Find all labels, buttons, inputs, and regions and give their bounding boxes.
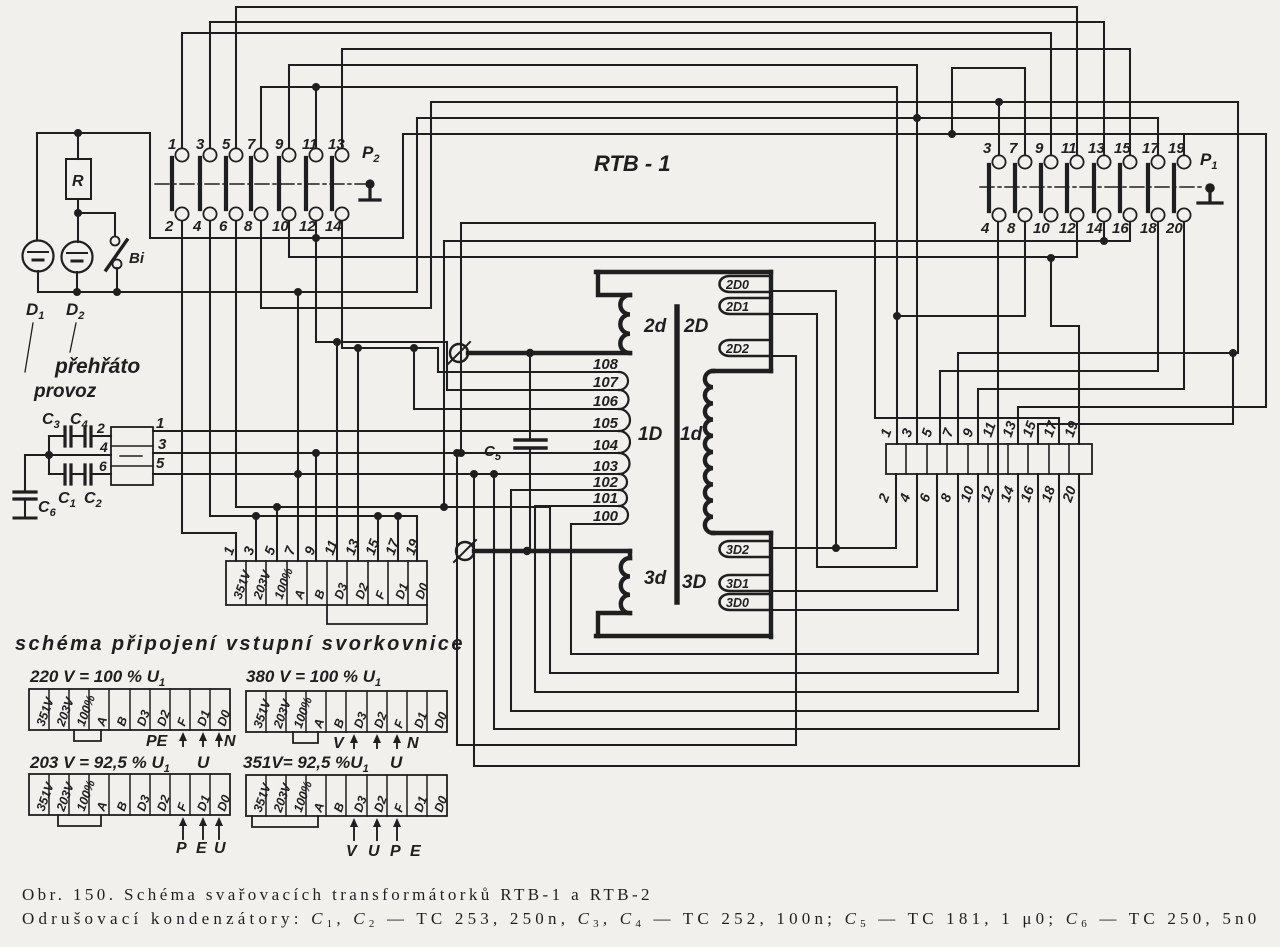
node pin12 crossing box wire: [312, 234, 320, 242]
wire P2 pin10 line y257 to P1 pin12: [289, 221, 1077, 257]
winding 1d coil: [705, 371, 713, 533]
P2 pole contact bar 9-10: [277, 158, 281, 209]
variant block 380V divider 6: [366, 691, 368, 732]
P2 pin 4 bottom circle: [203, 207, 216, 220]
wire line y223 staircase to strip cell9: [461, 223, 1059, 444]
svg-text:E: E: [196, 840, 208, 857]
P2 pin 13 top circle: [335, 148, 348, 161]
node C5 bottom junction: [523, 547, 531, 555]
wire branch block A: [297, 474, 299, 561]
svg-text:11: 11: [1061, 140, 1077, 157]
transformer right edge upper: [769, 272, 773, 371]
svg-text:4: 4: [980, 220, 990, 237]
P2 pin 11 top circle: [309, 148, 322, 161]
wire line y241 to P1 pin16: [444, 222, 1130, 241]
svg-text:U: U: [368, 843, 380, 860]
variant block 203V arrowhead at 203: [199, 817, 207, 826]
wire branch to block D3: [336, 342, 338, 561]
wire C5 bottom lead: [529, 448, 531, 551]
variant block 380V divider 8: [406, 691, 408, 732]
input terminal block body: [226, 561, 427, 605]
transformer right edge lower: [769, 533, 773, 637]
svg-text:12: 12: [1059, 220, 1076, 237]
svg-text:7: 7: [1009, 140, 1018, 157]
wire tap106 line: [414, 408, 619, 410]
wire branch strip cell1 to P1 pin8: [897, 222, 1025, 316]
capacitor C3 plates: [65, 427, 71, 446]
variant block 220V arrow at 183: [182, 736, 184, 746]
wire P2 pin3 to P1 top bundle line y22: [210, 22, 1104, 155]
capacitor C4 plates: [85, 427, 91, 446]
node tap104 to B junction: [312, 449, 320, 457]
variant block 220V arrowhead at 219: [215, 732, 223, 741]
node line y118 crossing cell2 wire: [913, 114, 921, 122]
svg-text:106: 106: [593, 393, 619, 410]
svg-text:Obr. 150. Schéma svařovacích t: Obr. 150. Schéma svařovacích transformát…: [22, 885, 653, 904]
Bi switch bottom contact: [113, 260, 122, 269]
wire C5 top lead: [529, 353, 531, 440]
svg-text:16: 16: [1112, 220, 1129, 237]
svg-text:přehřáto: přehřáto: [54, 355, 140, 378]
svg-text:2: 2: [96, 420, 105, 436]
input block divider 3: [286, 561, 288, 605]
wire C1-C2 link: [71, 473, 84, 475]
svg-text:203 V = 92,5 % U1: 203 V = 92,5 % U1: [29, 753, 170, 775]
wire P2 pin13 to P1 top bundle line y49: [342, 49, 1130, 155]
terminal strip divider 7: [1027, 444, 1029, 474]
wire left box top: [37, 133, 403, 238]
wire strip cell3 to P1 pin18: [940, 222, 1158, 444]
wire nest to cell10: [474, 474, 1079, 766]
svg-text:5: 5: [222, 136, 231, 153]
thick feed line lower screw to 3d: [474, 549, 630, 553]
transformer top-left hook: [598, 272, 630, 295]
svg-text:3D0: 3D0: [726, 596, 749, 610]
node tap103 bus junction: [294, 470, 302, 478]
variant block 203V divider 2: [68, 774, 70, 815]
svg-text:U: U: [197, 753, 210, 772]
wire nest to cell9: [494, 474, 1059, 729]
node cell1 branch junction: [893, 312, 901, 320]
svg-text:2: 2: [164, 218, 174, 235]
variant block 203V divider 9: [209, 774, 211, 815]
svg-text:18: 18: [1140, 220, 1157, 237]
variant block 351V arrowhead at 377: [373, 818, 381, 827]
node cap bus junction: [45, 451, 53, 459]
svg-text:3: 3: [158, 436, 167, 453]
svg-text:3D: 3D: [682, 572, 707, 593]
variant block 380V divider 5: [345, 691, 347, 732]
wire P2 pin5 to P1 top bundle line y7: [236, 7, 1077, 155]
variant block 220V arrow at 219: [218, 736, 220, 746]
lamp D2 inner long electrode: [67, 252, 87, 254]
wire lamp D2 bottom lead: [76, 272, 78, 292]
winding 1D turn arc 105-104: [619, 431, 630, 453]
variant block 380V bottom strap: [293, 732, 318, 743]
P1 pin 12 bottom circle: [1070, 208, 1083, 221]
variant block 351V divider 8: [406, 775, 408, 816]
variant block 351V divider 3: [305, 775, 307, 816]
wire tap108 line: [438, 371, 619, 373]
variant block 380V arrow at 397: [396, 738, 398, 748]
P2 pin 12 bottom circle: [309, 207, 322, 220]
wire P2 pin8 to strip cell4 line y102: [261, 102, 1238, 444]
wire branch line y102 to P1 pin3: [998, 102, 1000, 155]
svg-text:9: 9: [1035, 140, 1044, 157]
P1 pin 8 bottom circle: [1018, 208, 1031, 221]
wire left box left side to lamp D1: [36, 133, 38, 240]
P1 pole contact bar 3-4: [987, 165, 991, 211]
capacitor C5 plates: [515, 440, 546, 448]
wire C2 to box pin6: [91, 473, 111, 475]
signal lamp D2: [62, 242, 93, 273]
svg-text:1: 1: [168, 136, 176, 153]
variant block 203V arrow at 219: [218, 821, 220, 839]
variant block 380V divider 4: [325, 691, 327, 732]
variant block 380V arrowhead at 354: [350, 734, 358, 743]
svg-text:17: 17: [1142, 140, 1159, 157]
Bi switch blade: [106, 240, 127, 270]
winding 3d top lead: [628, 551, 632, 558]
svg-text:7: 7: [247, 136, 256, 153]
P2 ground symbol: [360, 184, 380, 200]
P1 ground symbol: [1198, 188, 1222, 203]
variant block 203V divider 7: [169, 774, 171, 815]
screw terminal lower slash: [454, 540, 476, 562]
svg-text:3d: 3d: [644, 568, 667, 589]
wire R bottom lead: [77, 199, 79, 242]
wire P2 pin12 staircase to tap107: [316, 221, 447, 390]
wire 2D0 to 3D2 line: [771, 291, 836, 548]
secondary tap tab 2D0: [720, 276, 772, 292]
P2 ground node dot: [365, 179, 374, 188]
node line y353 junction: [1229, 349, 1237, 357]
P1 pole contact bar 7-8: [1013, 165, 1017, 211]
variant block 380V divider 2: [285, 691, 287, 732]
svg-text:2D: 2D: [683, 316, 709, 337]
variant block 220V: [29, 689, 230, 730]
wire pin5 to tap103: [153, 473, 621, 475]
node C5 top junction: [526, 349, 534, 357]
variant block 203V divider 4: [108, 774, 110, 815]
input block divider 7: [367, 561, 369, 605]
svg-text:Bi: Bi: [129, 250, 145, 267]
svg-text:8: 8: [1007, 220, 1016, 237]
wire P2 pin7 to strip cell1 line y87: [261, 87, 897, 444]
wire branch to Bi switch: [78, 213, 115, 236]
svg-text:351V= 92,5 %U1: 351V= 92,5 %U1: [243, 753, 369, 775]
node tap103 nest junction: [470, 470, 478, 478]
wire stub P1 pin14 to line y241: [1103, 222, 1105, 241]
svg-text:2D2: 2D2: [725, 342, 749, 356]
node bus vertical branch: [294, 288, 302, 296]
svg-text:8: 8: [244, 218, 253, 235]
winding 1D turn arc 108-107: [619, 372, 628, 390]
variant block 220V divider 4: [108, 689, 110, 730]
variant block 351V divider 7: [386, 775, 388, 816]
svg-text:R: R: [72, 173, 84, 190]
input connector divider 2: [111, 465, 153, 467]
variant block 351V divider 6: [366, 775, 368, 816]
P1 pin 10 bottom circle: [1044, 208, 1057, 221]
wire bus branch down to tap103 line: [297, 292, 299, 474]
P2 pin 7 top circle: [254, 148, 267, 161]
terminal strip body: [886, 444, 1092, 474]
wire C4 to box pin2: [91, 435, 111, 437]
variant block 380V divider 1: [265, 691, 267, 732]
svg-text:3: 3: [196, 136, 205, 153]
wire branch to block D1: [397, 516, 399, 561]
winding 2d coil: [620, 295, 630, 353]
svg-text:1D: 1D: [638, 424, 663, 445]
svg-text:PE: PE: [146, 733, 169, 750]
terminal strip divider 4: [967, 444, 969, 474]
P2 pin 3 top circle: [203, 148, 216, 161]
svg-text:9: 9: [275, 136, 284, 153]
variant block 351V divider 9: [426, 775, 428, 816]
terminal strip divider 8: [1048, 444, 1050, 474]
wire nest to 2D2 drop: [457, 356, 796, 745]
variant block 220V divider 3: [88, 689, 90, 730]
P1 pin 3 top circle: [992, 155, 1005, 168]
wire 3D2 to strip cell1 bottom: [771, 474, 896, 548]
svg-text:2d: 2d: [643, 316, 667, 337]
variant block 380V divider 9: [426, 691, 428, 732]
wire P2 pin1 to P1 top bundle line y33: [182, 33, 1051, 155]
node D2 on bus: [73, 288, 81, 296]
node tap106 junction: [410, 344, 418, 352]
node R bottom junction: [74, 209, 82, 217]
P1 pole contact bar 17-18: [1146, 165, 1150, 211]
wire lamp D1 bottom lead: [37, 271, 39, 292]
svg-text:6: 6: [219, 218, 228, 235]
svg-text:N: N: [407, 735, 419, 752]
variant block 220V arrowhead at 203: [199, 732, 207, 741]
winding 1D turn arc 106-105: [619, 409, 630, 431]
P1 pin 11 top circle: [1070, 155, 1083, 168]
wire C6 to ground: [24, 499, 26, 517]
variant block 220V divider 2: [68, 689, 70, 730]
input connector divider 1: [111, 445, 153, 447]
node 100pct junction: [273, 503, 281, 511]
svg-text:5: 5: [156, 455, 165, 472]
wire C3-C4 link: [71, 435, 84, 437]
transformer top yoke: [596, 270, 771, 274]
secondary tap tab 3D1: [720, 575, 772, 591]
svg-text:12: 12: [299, 218, 316, 235]
variant block 220V divider 5: [129, 689, 131, 730]
P1 pin 16 bottom circle: [1123, 208, 1136, 221]
node Bi on bus: [113, 288, 121, 296]
variant block 203V bottom strap: [58, 815, 101, 826]
wire P2 pin4 to block D0: [210, 221, 417, 561]
secondary tap tab 2D2: [720, 340, 772, 356]
svg-text:3: 3: [983, 140, 992, 157]
variant block 220V bottom strap: [74, 730, 101, 741]
wire branch line y134 to P1 pin19: [1183, 134, 1185, 155]
P1 pin 20 bottom circle: [1177, 208, 1190, 221]
variant block 203V arrow at 203: [202, 821, 204, 839]
input block divider 9: [407, 561, 409, 605]
svg-text:105: 105: [593, 415, 619, 432]
P1 pin 19 top circle: [1177, 155, 1190, 168]
secondary tap tab 2D1: [720, 298, 772, 314]
P2 pole contact bar 11-12: [304, 158, 308, 209]
P1 pin 14 bottom circle: [1097, 208, 1110, 221]
P2 pin 14 bottom circle: [335, 207, 348, 220]
wire P2 pin6 to nest cell6 line y507: [236, 221, 998, 673]
variant block 380V divider 7: [386, 691, 388, 732]
terminal strip divider 6: [1007, 444, 1009, 474]
input connector block: [111, 427, 153, 485]
svg-text:1: 1: [156, 415, 164, 432]
winding 1D turn arc 107-106: [619, 390, 629, 409]
wire tap101 line to nest cell7: [535, 474, 1018, 692]
winding 1D turn arc 102-101: [619, 490, 627, 506]
wire tap106 riser: [413, 348, 415, 409]
terminal strip divider 3: [946, 444, 948, 474]
winding 1D turn arc 103-102: [619, 474, 627, 490]
svg-text:14: 14: [325, 218, 342, 235]
variant block 351V arrow at 377: [376, 822, 378, 840]
svg-text:3D2: 3D2: [726, 543, 749, 557]
svg-text:U: U: [390, 753, 403, 772]
wire branch to block F: [377, 516, 379, 561]
wire left box to right loop line y134: [403, 134, 1266, 444]
input block divider 6: [346, 561, 348, 605]
node line y223 to tap104 junction: [457, 449, 465, 457]
svg-text:380 V = 100 % U1: 380 V = 100 % U1: [246, 667, 381, 689]
node P2 pin11 junction: [312, 83, 320, 91]
svg-text:schéma připojení vstupní svork: schéma připojení vstupní svorkovnice: [15, 633, 465, 655]
svg-text:provoz: provoz: [33, 381, 97, 402]
variant block 220V divider 8: [189, 689, 191, 730]
lamp D2 inner short electrode: [72, 260, 82, 263]
variant block 220V arrowhead at 183: [179, 732, 187, 741]
P2 pole contact bar 1-2: [170, 158, 174, 209]
P1 pin 9 top circle: [1044, 155, 1057, 168]
svg-text:2D0: 2D0: [725, 278, 749, 292]
P2 pin 2 bottom circle: [175, 207, 188, 220]
wire tap107 line: [447, 389, 619, 391]
variant block 380V arrowhead at 397: [393, 734, 401, 743]
capacitor C2 plates: [85, 465, 91, 484]
variant block 380V divider 3: [305, 691, 307, 732]
variant block 351V divider 4: [325, 775, 327, 816]
wire R top lead: [77, 133, 79, 159]
wire 2D2 drop: [771, 355, 796, 357]
terminal strip divider 2: [926, 444, 928, 474]
svg-text:102: 102: [593, 474, 619, 491]
variant block 203V divider 5: [129, 774, 131, 815]
svg-text:107: 107: [593, 374, 619, 391]
svg-text:V: V: [333, 735, 345, 752]
node 2D0-3D2 junction: [832, 544, 840, 552]
svg-text:N: N: [224, 733, 236, 750]
terminal strip divider 1: [905, 444, 907, 474]
svg-text:20: 20: [1165, 220, 1183, 237]
svg-text:4: 4: [99, 439, 108, 455]
node R top junction: [74, 129, 82, 137]
variant block 380V arrowhead at 377: [373, 734, 381, 743]
svg-text:P: P: [176, 840, 187, 857]
wire left cap bus: [25, 436, 49, 491]
P1 pole contact bar 11-12: [1065, 165, 1069, 211]
node pin14 junction: [1100, 237, 1108, 245]
node line y241 to y507 junction: [440, 503, 448, 511]
transformer core bar: [674, 307, 679, 602]
svg-text:6: 6: [99, 458, 107, 474]
svg-text:P: P: [390, 843, 401, 860]
P2 dash-dot axis line: [155, 183, 370, 185]
input block divider 2: [265, 561, 267, 605]
P2 pin 5 top circle: [229, 148, 242, 161]
wire pin3 to tap104: [153, 452, 621, 454]
screw terminal upper: [450, 344, 468, 362]
secondary tap tab 3D2: [720, 541, 772, 557]
svg-text:103: 103: [593, 458, 619, 475]
svg-text:100: 100: [593, 508, 619, 525]
svg-text:U: U: [214, 840, 226, 857]
node D2 junction: [354, 344, 362, 352]
node line y134 to pin7 junction: [948, 130, 956, 138]
variant block 351V arrow at 397: [396, 822, 398, 840]
wire P2 pin2 to block 351V: [182, 221, 236, 561]
variant block 203V: [29, 774, 230, 815]
node D3 junction: [333, 338, 341, 346]
wire branch to block 100pct: [276, 507, 278, 561]
variant block 351V bottom strap: [252, 816, 318, 827]
svg-text:10: 10: [272, 218, 289, 235]
input block bottom strap: [327, 605, 427, 624]
variant block 351V arrowhead at 354: [350, 818, 358, 827]
svg-text:101: 101: [593, 490, 618, 507]
P2 pole contact bar 7-8: [249, 158, 253, 209]
capacitor C1 plates: [65, 465, 71, 484]
wire C1 left lead: [49, 473, 64, 475]
variant block 380V arrow at 377: [376, 738, 378, 748]
variant block 203V arrow at 183: [182, 821, 184, 839]
svg-text:4: 4: [192, 218, 202, 235]
node line y258 branch junction: [1047, 254, 1055, 262]
Bi switch top contact: [111, 237, 120, 246]
P2 pole contact bar 3-4: [198, 158, 202, 209]
variant block 351V arrow at 354: [353, 822, 355, 840]
P2 pin 9 top circle: [282, 148, 295, 161]
wire lamp common bus y292: [38, 291, 417, 293]
P1 pole contact bar 15-16: [1118, 165, 1122, 211]
wire 3D0 to strip cell4 bottom: [771, 474, 958, 610]
P1 pole contact bar 19-20: [1172, 165, 1176, 211]
svg-text:3D1: 3D1: [726, 577, 749, 591]
svg-text:19: 19: [1168, 140, 1185, 157]
variant block 203V divider 6: [149, 774, 151, 815]
transformer bottom yoke: [596, 634, 771, 638]
node tap103 cell9 junction: [490, 470, 498, 478]
variant block 351V divider 5: [345, 775, 347, 816]
secondary tap tab 3D0: [720, 594, 772, 610]
variant block 351V arrowhead at 397: [393, 818, 401, 827]
wire branch to strip cell10: [1051, 258, 1079, 444]
variant block 220V divider 1: [48, 689, 50, 730]
leader line from D2 label: [70, 323, 76, 352]
P1 dash-dot axis line: [980, 186, 1205, 188]
wire line y241 vertical to line y507: [443, 241, 445, 507]
svg-text:E: E: [410, 843, 422, 860]
variant block 380V arrow at 354: [353, 738, 355, 748]
variant block 351V divider 2: [285, 775, 287, 816]
variant block 220V divider 6: [149, 689, 151, 730]
